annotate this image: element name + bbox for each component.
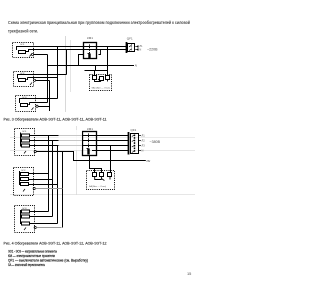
scan artifact gray vertical 1	[65, 36, 67, 112]
wire bus1 fig2	[30, 135, 129, 137]
switch SA1 fig1 dashed box	[90, 75, 112, 91]
wire vertical x48 fig2	[48, 136, 50, 212]
wire ЭО2 lead2 run fig1	[27, 77, 57, 79]
svg-text:N: N	[142, 149, 144, 153]
wire N bus fig1	[48, 65, 135, 67]
wire vertical x62 fig2	[62, 152, 64, 228]
wire ЭО3 lead2 fig2	[30, 216, 53, 218]
scan artifact gray vertical 3	[76, 126, 78, 195]
scan artifact gray rule 1	[10, 137, 195, 139]
wire ЭО3 lead1 run fig1	[36, 98, 58, 100]
wire ЭО2 lead1 run fig1	[34, 74, 67, 76]
heater ЭО2 fig2 dashed box	[14, 168, 34, 196]
wire KM1 coil feed fig1	[79, 55, 84, 66]
wire SA button stem fig1	[94, 71, 96, 76]
wire vertical x66.5 fig1	[66, 50, 68, 75]
wire ЭО3 chassis fig2	[36, 227, 61, 229]
wire stub x100.5 fig1	[99, 50, 101, 55]
wire KM1-QF1 neutral fig2	[92, 150, 129, 152]
svg-text:Л3: Л3	[142, 144, 146, 148]
heater ЭО1 dashed box	[13, 43, 35, 58]
wire vertical x49.2 fig1	[49, 81, 51, 112]
svg-text:N: N	[140, 49, 142, 52]
heater ЭО3 fig2 chassis circle	[34, 226, 36, 228]
wire ЭО1 chassis run fig1	[34, 54, 48, 56]
svg-text:КМ — электромагнитные пускател: КМ — электромагнитные пускатели	[8, 254, 55, 258]
wire ЭО2 lead2 fig2	[29, 179, 53, 181]
contactor KM1 fig2 box	[83, 132, 97, 156]
heater ЭО3 dashed box	[16, 96, 37, 112]
breaker QF1 fig2	[129, 132, 139, 155]
svg-text:~220В: ~220В	[147, 48, 158, 52]
wire ЭО3 chassis run fig1	[38, 106, 49, 108]
svg-text:Схема электрическая принципиал: Схема электрическая принципиальная при г…	[8, 20, 190, 25]
svg-text:ЭО1: ЭО1	[22, 131, 27, 133]
wire ЭО3 lead1 fig2	[30, 211, 49, 213]
breaker QF1 fig1	[127, 42, 135, 53]
wire SA feed vertical x95.5 fig1	[95, 66, 97, 71]
contactor KM1 fig1 box	[84, 43, 97, 59]
wire QF1 out L1 fig2	[139, 135, 142, 137]
wire QF1 out L2 fig2	[139, 140, 142, 142]
svg-text:QF1: QF1	[131, 128, 137, 132]
wire ЭО3 lead3 fig2	[30, 223, 58, 225]
svg-text:трехфазной сети.: трехфазной сети.	[8, 29, 38, 34]
scan artifact gray rule 3	[10, 194, 195, 196]
wire W1 phase bus fig1	[34, 46, 126, 48]
wire N bus fig2	[36, 152, 146, 161]
wire ЭО2 lead1 fig2	[29, 173, 49, 175]
svg-text:QF1 — выключатели автоматическ: QF1 — выключатели автоматические (см. Вы…	[8, 258, 88, 262]
svg-text:QF1: QF1	[127, 37, 133, 41]
wire ЭО3 lead2 run fig1	[29, 102, 47, 104]
heater ЭО3 chassis terminal circle	[36, 105, 38, 107]
svg-text:ЭО1: ЭО1	[20, 44, 25, 46]
svg-text:КМ1: КМ1	[87, 127, 93, 131]
scan artifact gray rule 2	[10, 150, 195, 152]
svg-text:Рис. 4 Обогреватели АОВ-ЭЭТ-11: Рис. 4 Обогреватели АОВ-ЭЭТ-11, АОВ-ЭЭТ-…	[4, 242, 107, 246]
wire QF1 output arrow bottom fig1	[135, 49, 139, 51]
scan artifact gray vertical 2	[70, 40, 72, 92]
svg-text:ЭО1 - ЭО3 — нагревательные эле: ЭО1 - ЭО3 — нагревательные элементы	[8, 249, 57, 253]
svg-text:ЭО2: ЭО2	[21, 170, 26, 172]
wire SA top run fig1	[85, 70, 108, 72]
svg-text:РЕ: РЕ	[147, 159, 151, 163]
svg-text:SA (Вкл — Откл): SA (Вкл — Откл)	[89, 185, 106, 188]
wire SA button1 stem fig2	[94, 169, 96, 174]
svg-text:КМ1: КМ1	[87, 36, 93, 40]
svg-text:SA1 (Вкл — Откл): SA1 (Вкл — Откл)	[92, 87, 111, 90]
heater ЭО2 fig2 chassis circle	[33, 187, 35, 189]
wire QF1 out N fig2	[139, 150, 142, 152]
heater ЭО2 dashed box	[14, 72, 35, 87]
wire W2 bus fig1	[28, 49, 126, 51]
svg-text:~380В: ~380В	[150, 140, 161, 144]
wire control tap vertical x110 fig2	[110, 146, 112, 174]
svg-text:Л2: Л2	[142, 138, 146, 142]
wire QF1 out L3 fig2	[139, 145, 142, 147]
scan fade patch fig2	[59, 130, 83, 150]
heater ЭО1 chassis terminal circle	[31, 53, 33, 55]
heater ЭО1 fig2 dashed box	[15, 129, 35, 156]
wire bus3 fig2	[30, 145, 129, 147]
wire vertical x57 fig2	[57, 146, 59, 224]
wire KM1 coil feed to SA fig2	[90, 156, 102, 174]
wire QF1 output arrow top fig1	[135, 46, 139, 48]
wire vertical x57.8 fig1	[57, 47, 59, 99]
wire vertical x52.5 fig2	[52, 141, 54, 217]
heater ЭО3 fig2 dashed box	[15, 206, 35, 233]
svg-text:Рис. 3 Обогреватели АОВ-ЭЭТ-11: Рис. 3 Обогреватели АОВ-ЭЭТ-11, АОВ-ЭЭТ-…	[4, 118, 107, 122]
wire ЭО2 lead3 fig2	[29, 184, 58, 186]
wire ЭО2 chassis run fig1	[36, 80, 50, 82]
svg-text:Л1: Л1	[142, 133, 146, 137]
wire control tap vertical x107.5 fig1	[107, 47, 109, 75]
svg-text:15: 15	[187, 271, 191, 276]
svg-text:SA — кнопочный переключатель: SA — кнопочный переключатель	[8, 263, 45, 267]
wire bus2 fig2	[30, 140, 129, 142]
heater ЭО2 chassis terminal circle	[33, 79, 35, 81]
wire ЭО2 chassis fig2	[35, 188, 62, 190]
wire vertical x47 fig1	[47, 55, 49, 103]
heater ЭО1 fig2 chassis circle	[34, 150, 36, 152]
switch SA fig2 dashed box	[87, 171, 115, 190]
